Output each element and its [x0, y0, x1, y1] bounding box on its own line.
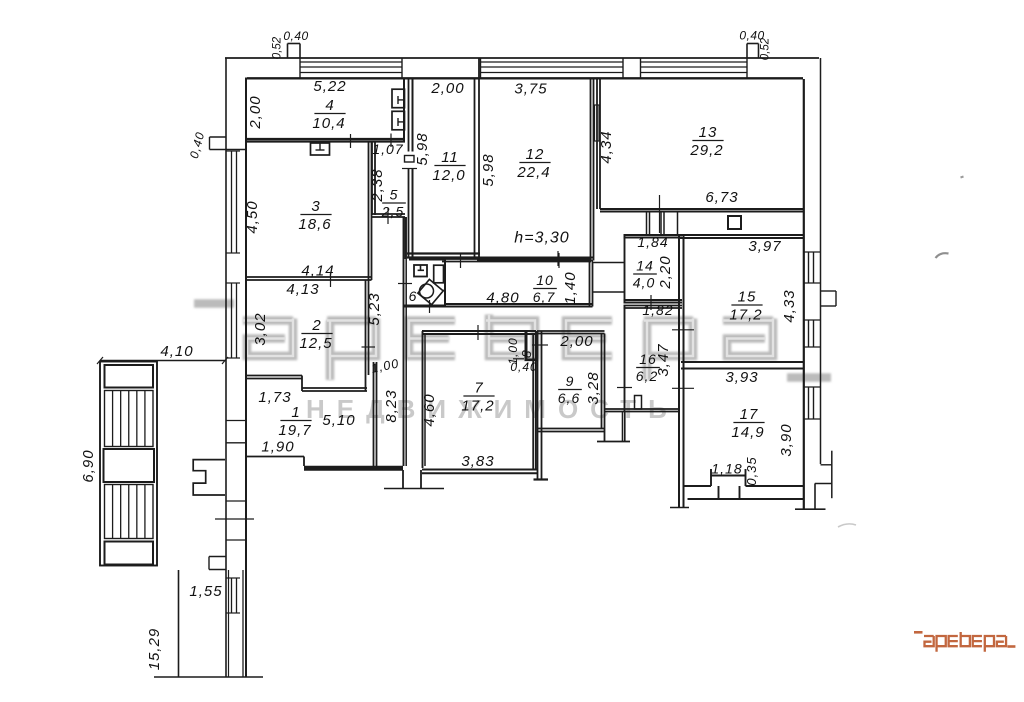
corridor step out: [209, 557, 226, 570]
room16 bottom wall: [605, 409, 680, 412]
artifact dash top right: [961, 177, 964, 178]
room15 top wall: [679, 235, 803, 238]
tick room13 bottom: [659, 195, 661, 233]
svg-text:1,18: 1,18: [711, 461, 742, 477]
room2 right wall: [366, 280, 369, 391]
svg-text:3: 3: [311, 198, 320, 215]
right wall bottom step: [795, 451, 832, 510]
stairs flight1: [105, 391, 154, 447]
wire top outer wall: [225, 57, 819, 59]
svg-text:4,0: 4,0: [633, 274, 655, 290]
corridor walls to room14: [593, 263, 625, 293]
svg-text:5,10: 5,10: [322, 412, 355, 429]
window left room3: [226, 151, 240, 253]
svg-text:2,00: 2,00: [430, 80, 464, 97]
room13 bottom wall: [600, 209, 803, 212]
svg-text:0,52: 0,52: [272, 36, 284, 59]
svg-text:2: 2: [311, 317, 321, 334]
tick room3 top: [350, 134, 352, 148]
door room11: [402, 156, 417, 169]
label room11 area: [432, 149, 465, 184]
stairs flight2: [105, 485, 154, 539]
svg-text:3,83: 3,83: [461, 453, 494, 470]
svg-text:15: 15: [738, 289, 757, 306]
svg-text:11: 11: [441, 149, 459, 166]
wire right inner wall: [803, 79, 805, 509]
washer room6: [418, 279, 445, 305]
svg-text:1,84: 1,84: [637, 234, 668, 250]
room3 bottom wall: [246, 277, 372, 280]
svg-text:5,98: 5,98: [480, 153, 497, 186]
svg-text:2,00: 2,00: [559, 333, 593, 350]
label room13 area: [689, 124, 723, 159]
shaft wall left: [404, 217, 406, 259]
room10 bottom wall: [444, 304, 593, 307]
tick left wall dim: [215, 518, 254, 520]
svg-text:1,82: 1,82: [642, 302, 673, 318]
room4 right wall: [403, 78, 405, 142]
window room13 left wall: [595, 105, 600, 141]
room2 bottom wall: [246, 376, 367, 392]
room4 bottom wall: [246, 139, 405, 142]
vestibule walls: [597, 412, 630, 442]
room16 right wall: [679, 235, 684, 507]
room17 left wall bottom serif: [670, 506, 689, 509]
corridor 1,84 walls: [647, 212, 678, 235]
svg-text:0,52: 0,52: [760, 37, 772, 60]
svg-text:19,7: 19,7: [278, 422, 311, 439]
svg-text:3,93: 3,93: [725, 369, 758, 386]
label room14 area: [633, 258, 657, 291]
svg-text:1,07: 1,07: [372, 141, 403, 157]
room3 right wall: [369, 142, 372, 281]
svg-text:3,47: 3,47: [655, 343, 672, 376]
label room1 area: [278, 404, 311, 439]
room5 left wall: [372, 142, 375, 216]
svg-text:5: 5: [390, 187, 399, 203]
baseline bottom: [154, 676, 263, 678]
room14 walls: [624, 235, 683, 303]
room1 bottom wall: [246, 457, 403, 469]
svg-text:13: 13: [699, 124, 718, 141]
room16 top wall: [624, 306, 683, 309]
svg-text:2,00: 2,00: [247, 95, 264, 129]
svg-text:3,90: 3,90: [778, 423, 795, 456]
tick room10 top b: [558, 253, 560, 268]
room11 left wall: [409, 78, 413, 258]
label room12 area: [516, 146, 550, 181]
wire left inner wall: [245, 78, 247, 678]
window left corridor: [226, 578, 240, 613]
label room7 area: [461, 380, 494, 415]
room9 left wall: [534, 331, 549, 480]
label room9 area: [558, 373, 582, 406]
vent boxes room4 right: [392, 89, 405, 130]
svg-text:6,73: 6,73: [705, 189, 738, 206]
svg-text:4,50: 4,50: [244, 200, 261, 233]
room11/12 wall: [475, 58, 480, 258]
svg-text:3,28: 3,28: [585, 371, 602, 404]
tick room15 left: [672, 329, 694, 331]
tick room7 top: [477, 325, 479, 340]
room12 right wall: [591, 78, 594, 261]
svg-text:10,4: 10,4: [312, 115, 345, 132]
porch top line: [100, 360, 226, 362]
closet room8: [513, 331, 548, 360]
svg-text:1,40: 1,40: [562, 271, 579, 304]
tab right wall: [821, 291, 837, 306]
artifact squiggle right: [936, 253, 949, 258]
svg-text:9: 9: [566, 373, 575, 389]
svg-text:22,4: 22,4: [516, 164, 550, 181]
svg-text:3,97: 3,97: [748, 238, 781, 255]
logo аревера red: [914, 632, 1015, 652]
cabinet room3 top: [311, 143, 330, 155]
door leaf room16: [635, 396, 642, 410]
tick room6 left: [398, 283, 412, 285]
label room5 area: [381, 187, 406, 220]
room12 bottom wall: [477, 258, 593, 261]
room5 bottom wall: [372, 214, 405, 217]
svg-text:8: 8: [519, 349, 535, 359]
tick room2 top: [330, 272, 332, 287]
wire left outer wall: [225, 58, 227, 677]
svg-text:4,13: 4,13: [286, 281, 319, 298]
chimney top-right: [747, 44, 759, 59]
svg-text:4,10: 4,10: [160, 343, 193, 360]
svg-text:4,80: 4,80: [486, 290, 519, 307]
window right room15 upper: [804, 252, 821, 283]
window top room4: [300, 58, 402, 78]
svg-text:14,9: 14,9: [731, 424, 764, 441]
corridor band inner line: [229, 570, 244, 677]
hall top wall: [403, 306, 537, 308]
svg-text:10: 10: [536, 272, 554, 288]
room11 bottom wall: [407, 254, 480, 258]
artifact dash lower right: [838, 524, 856, 527]
label room17 area: [731, 406, 764, 441]
label room16 area: [636, 351, 660, 384]
tick left wall b: [226, 500, 246, 502]
stairwell outer: [100, 362, 157, 566]
svg-text:7: 7: [474, 380, 483, 397]
svg-text:3,02: 3,02: [252, 312, 269, 345]
room10 top wall: [442, 259, 591, 262]
label room15 area: [729, 289, 762, 324]
svg-text:1,73: 1,73: [258, 389, 291, 406]
window right room15 lower: [804, 320, 821, 347]
toilet room6: [414, 265, 427, 277]
wire right outer wall: [820, 58, 822, 464]
corridor left wall: [404, 217, 407, 466]
svg-text:h=3,30: h=3,30: [514, 230, 569, 247]
svg-text:1,55: 1,55: [189, 583, 222, 600]
svg-text:18,6: 18,6: [298, 216, 331, 233]
svg-text:6,6: 6,6: [558, 390, 580, 406]
stairs landing mid: [104, 449, 155, 482]
svg-text:1,90: 1,90: [261, 439, 294, 456]
svg-text:17: 17: [740, 406, 759, 423]
svg-text:2,20: 2,20: [657, 255, 674, 289]
door room15 top: [728, 216, 741, 229]
svg-text:4,14: 4,14: [301, 263, 334, 280]
window left room2: [226, 283, 240, 358]
room9 top wall: [537, 331, 605, 334]
svg-text:6: 6: [409, 288, 418, 304]
pillar porch: [193, 460, 225, 495]
watermark аревера недвижимость: [194, 304, 831, 425]
tick room4 bottom wall: [390, 134, 392, 148]
room9 bottom wall: [538, 429, 605, 432]
svg-text:1: 1: [291, 404, 300, 421]
room17 bottom wall: [684, 469, 803, 499]
tick room10 top a: [460, 253, 462, 268]
svg-text:0,35: 0,35: [744, 456, 759, 485]
svg-text:0,40: 0,40: [283, 29, 308, 43]
svg-text:2,38: 2,38: [369, 168, 386, 202]
tick room17 left: [672, 387, 694, 389]
room16 left wall: [624, 306, 626, 412]
svg-text:4,34: 4,34: [598, 130, 615, 163]
svg-text:8,23: 8,23: [383, 389, 400, 422]
room10 right wall: [590, 262, 593, 307]
column room6: [434, 265, 444, 283]
svg-text:12,5: 12,5: [299, 335, 332, 352]
svg-text:5,22: 5,22: [313, 78, 346, 95]
corridor bottom left line: [178, 570, 180, 677]
svg-text:12,0: 12,0: [432, 167, 465, 184]
label room3 area: [298, 198, 331, 233]
svg-text:17,2: 17,2: [729, 306, 762, 323]
svg-text:14: 14: [636, 258, 654, 274]
svg-text:17,2: 17,2: [461, 397, 494, 414]
svg-text:4: 4: [325, 97, 334, 114]
tick room5 bottom: [387, 208, 389, 224]
svg-text:15,29: 15,29: [146, 628, 163, 671]
tab left wall 0,40: [210, 137, 247, 150]
tick room14 bottom: [650, 295, 652, 310]
hall left wall: [374, 362, 377, 466]
svg-text:5,98: 5,98: [414, 132, 431, 165]
svg-text:5,23: 5,23: [366, 292, 383, 325]
room7 box walls: [422, 331, 536, 470]
svg-text:0,40: 0,40: [510, 360, 537, 374]
tick vestibule left wall: [617, 387, 632, 389]
room13 left wall: [597, 79, 600, 209]
svg-text:12: 12: [526, 146, 545, 163]
tick room2 right wall: [362, 346, 376, 348]
tick hall top: [429, 300, 431, 313]
room9 right wall: [602, 334, 605, 442]
label room10 area: [533, 272, 557, 305]
window top room12: [481, 58, 624, 78]
svg-text:4,33: 4,33: [781, 289, 798, 322]
tick 4,10 ends: [97, 357, 228, 364]
tick left wall c: [226, 539, 246, 541]
tick left wall a2: [226, 420, 246, 422]
wire rooms top wall: [247, 77, 803, 79]
window top room13: [641, 58, 748, 78]
svg-text:6,90: 6,90: [80, 449, 97, 482]
svg-text:29,2: 29,2: [689, 142, 723, 159]
room6 walls: [404, 260, 446, 306]
svg-text:2,5: 2,5: [381, 203, 404, 219]
svg-text:4,60: 4,60: [421, 393, 438, 426]
stairs landing bottom: [105, 542, 154, 565]
tick left wall a: [226, 442, 246, 444]
stairs landing top: [105, 365, 154, 388]
pillar below room7: [384, 470, 444, 489]
window right room17: [804, 387, 821, 419]
room7 bottom wall: [422, 470, 537, 474]
room15 bottom wall: [681, 362, 803, 369]
svg-text:3,75: 3,75: [514, 81, 547, 98]
svg-text:6,7: 6,7: [533, 289, 556, 305]
chimney top-left: [288, 44, 301, 59]
label room2 area: [299, 317, 332, 352]
label room4 area: [312, 97, 345, 132]
tick room12 bottom: [557, 251, 559, 266]
